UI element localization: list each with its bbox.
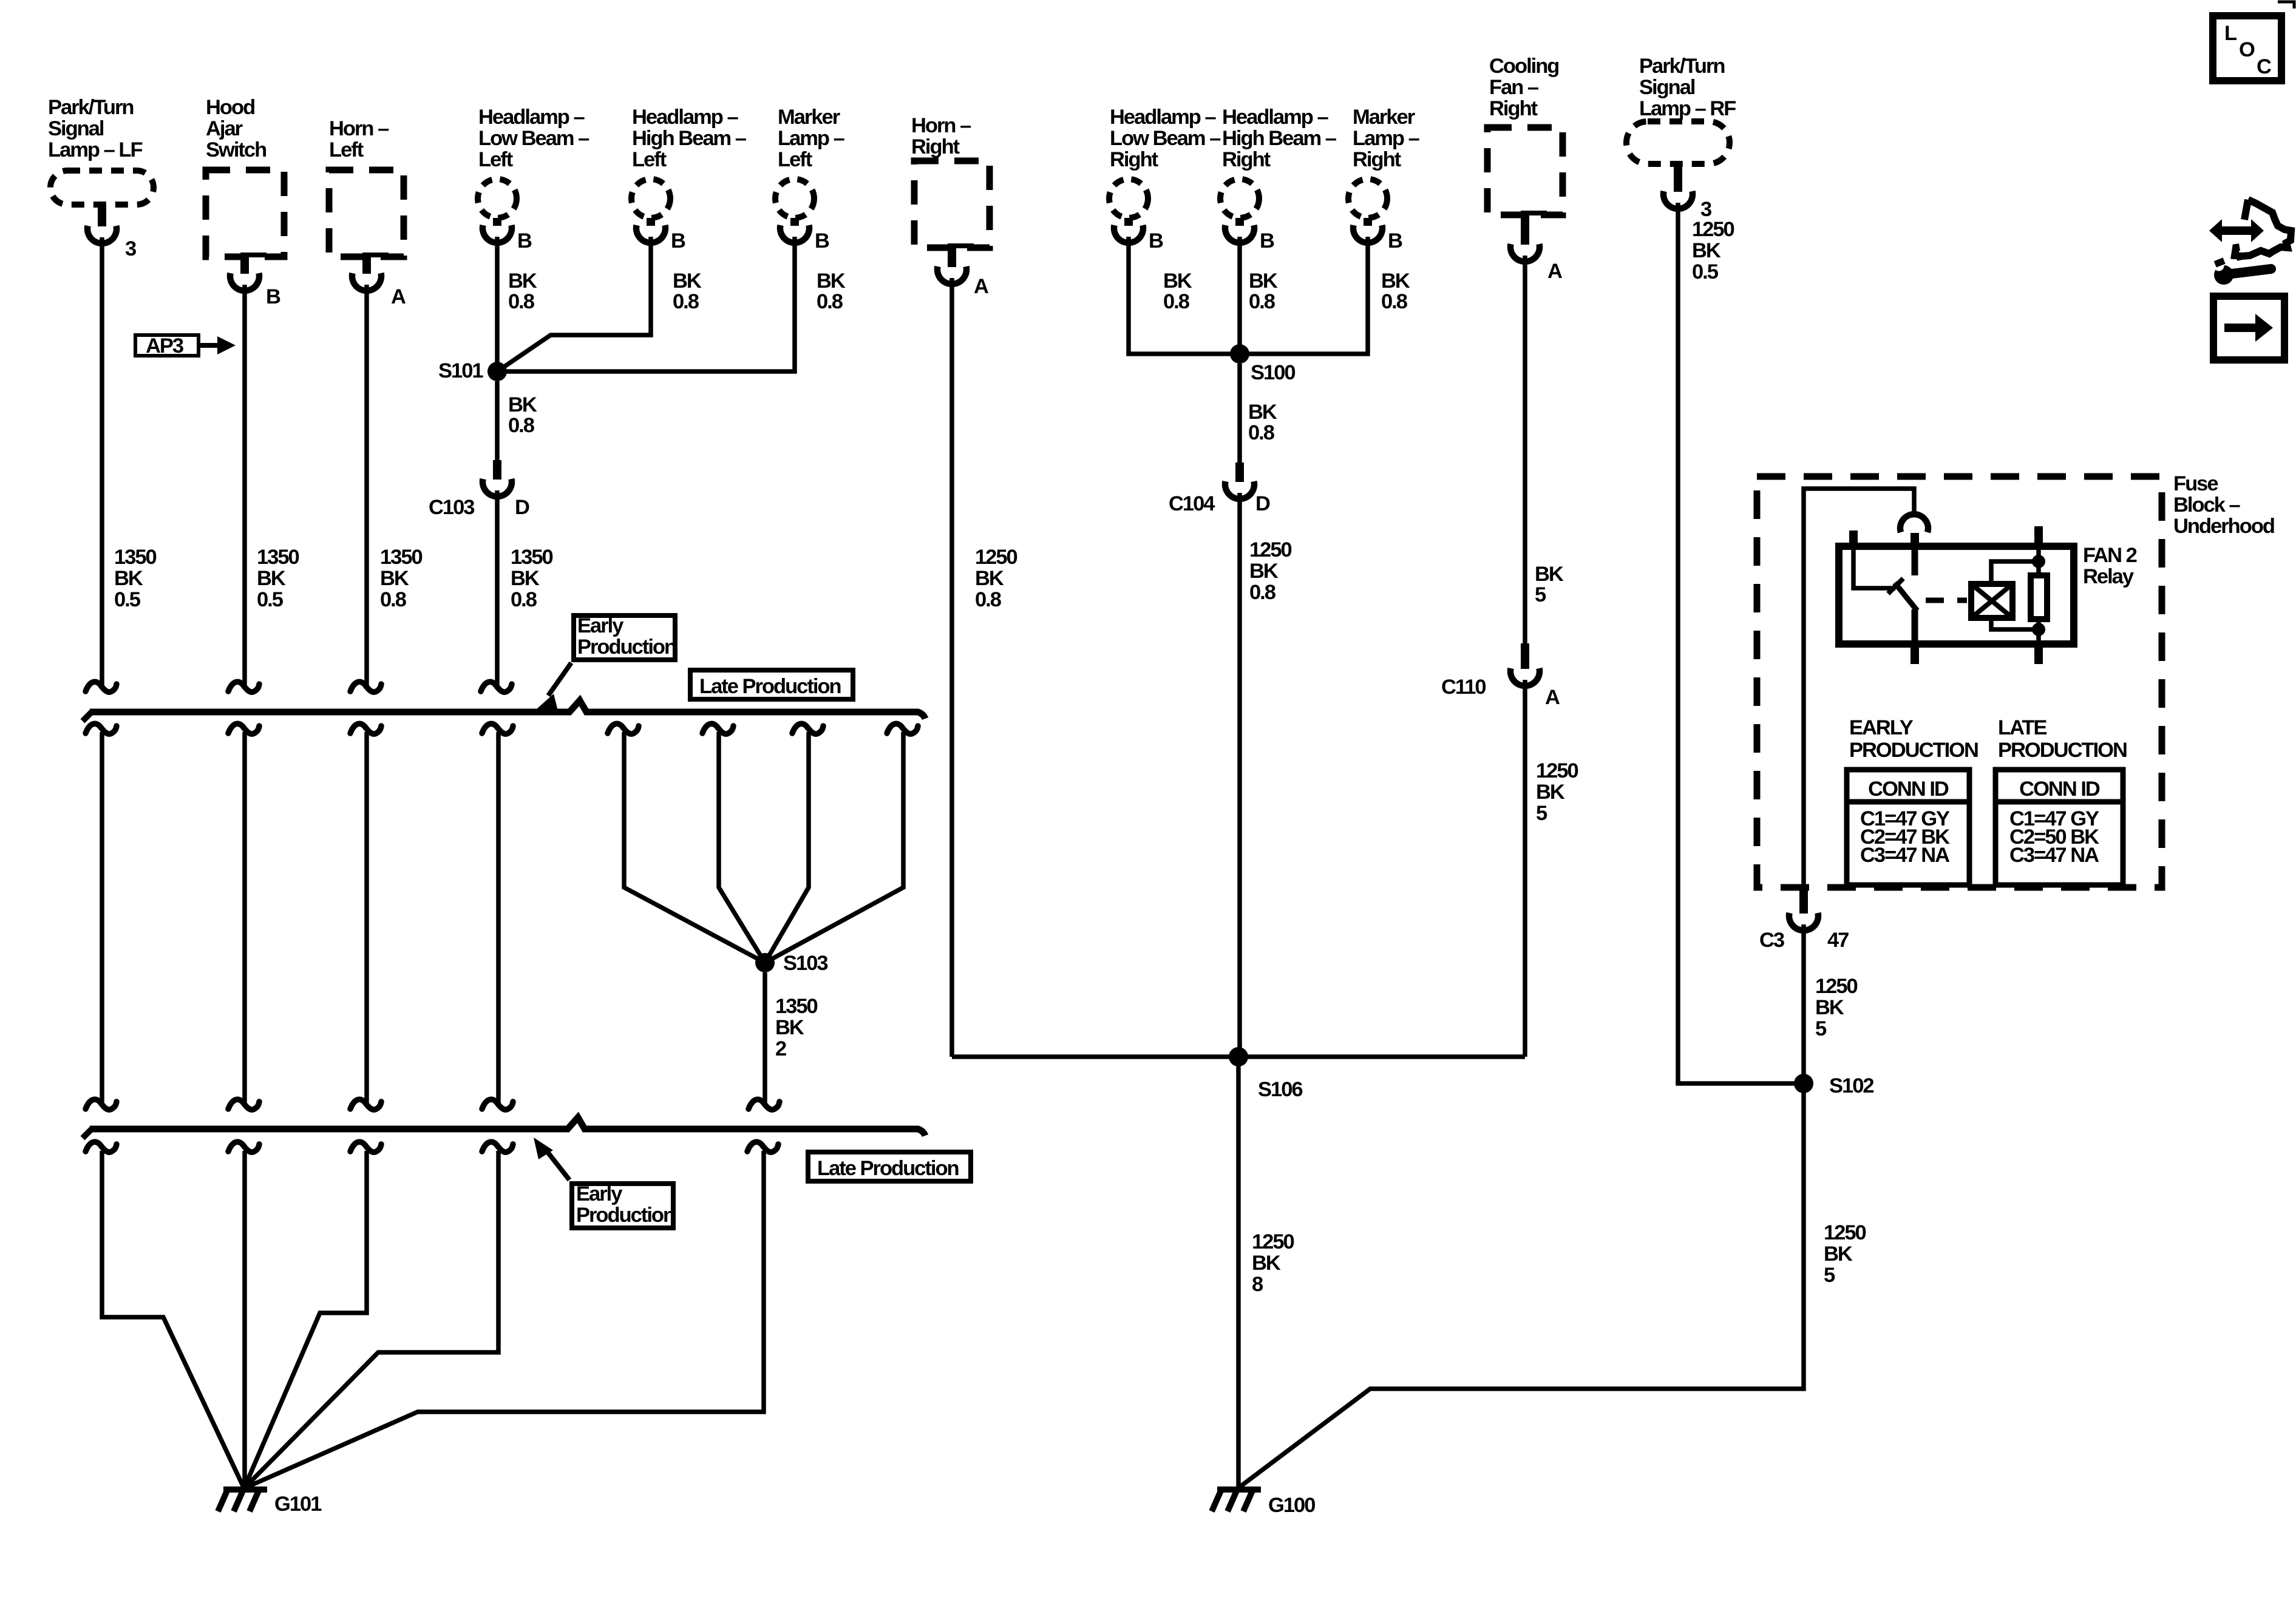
svg-text:BK: BK bbox=[508, 269, 537, 293]
svg-text:0.8: 0.8 bbox=[1163, 290, 1190, 313]
svg-text:Early: Early bbox=[577, 614, 623, 637]
wire late-production branch 1 from bus 1 to splice S103 bbox=[608, 724, 765, 963]
svg-text:Fuse: Fuse bbox=[2173, 472, 2218, 495]
svg-text:Block –: Block – bbox=[2173, 493, 2241, 517]
svg-text:LATE: LATE bbox=[1998, 716, 2047, 739]
relay FAN 2 coil actuation dashed link bbox=[1926, 598, 1967, 603]
svg-text:C3: C3 bbox=[1759, 929, 1784, 952]
connector pin B of Headlamp Low Beam Right bbox=[1114, 218, 1163, 253]
svg-text:Headlamp –: Headlamp – bbox=[1110, 106, 1216, 129]
svg-text:S101: S101 bbox=[438, 359, 483, 382]
connector C3 pin 47 bbox=[1759, 887, 1849, 952]
svg-text:BK: BK bbox=[1248, 401, 1277, 424]
svg-text:1350: 1350 bbox=[511, 546, 553, 569]
svg-text:B: B bbox=[266, 285, 280, 308]
component Hood Ajar Switch (dashed box) bbox=[206, 96, 284, 257]
svg-text:BK: BK bbox=[508, 393, 537, 416]
svg-text:B: B bbox=[1149, 229, 1163, 253]
svg-text:BK: BK bbox=[1692, 239, 1721, 262]
svg-text:Horn –: Horn – bbox=[911, 114, 971, 137]
wire inside fuse block from relay to connector C3 bbox=[1804, 489, 1914, 887]
svg-text:47: 47 bbox=[1827, 929, 1849, 952]
wire early-production ground run 4 from bus 1 to bus 2 bbox=[482, 724, 513, 1110]
wire 1250 BK 0.5 from Park/Turn RF pin 3 down and right to splice S102 bbox=[1678, 203, 1804, 1083]
svg-text:5: 5 bbox=[1824, 1264, 1835, 1287]
svg-text:G100: G100 bbox=[1268, 1494, 1315, 1517]
wire 1250 BK 5 from C110 down to splice S106 horizontal bbox=[1525, 680, 1578, 1057]
wire BK 0.8 from Marker Lamp Left pin B to splice S101 bbox=[497, 237, 846, 371]
svg-text:C3=47 NA: C3=47 NA bbox=[1860, 844, 1949, 867]
svg-text:1250: 1250 bbox=[1692, 218, 1734, 241]
svg-text:S103: S103 bbox=[783, 952, 827, 975]
svg-text:PRODUCTION: PRODUCTION bbox=[1849, 739, 1978, 762]
svg-text:Low Beam –: Low Beam – bbox=[478, 127, 589, 150]
svg-text:BK: BK bbox=[1536, 781, 1565, 804]
component Marker Lamp - Left (dashed circle) bbox=[775, 106, 845, 218]
svg-text:1350: 1350 bbox=[114, 546, 157, 569]
svg-text:0.8: 0.8 bbox=[511, 588, 537, 611]
component Marker Lamp - Right (dashed circle) bbox=[1348, 106, 1420, 218]
connector pin B of Marker Lamp Right bbox=[1353, 218, 1402, 253]
wire late-production branch 3 from bus 1 to splice S103 bbox=[765, 724, 823, 963]
svg-text:0.5: 0.5 bbox=[1692, 260, 1719, 283]
connector C110 pin A bbox=[1441, 643, 1560, 709]
svg-text:Late Production: Late Production bbox=[699, 675, 841, 698]
svg-text:BK: BK bbox=[1163, 269, 1192, 293]
svg-text:Park/Turn: Park/Turn bbox=[1639, 55, 1724, 78]
svg-text:Right: Right bbox=[1353, 148, 1402, 171]
svg-text:Right: Right bbox=[1222, 148, 1271, 171]
connector C103 pin D bbox=[429, 460, 529, 519]
legend LOC box bbox=[2213, 16, 2281, 81]
svg-text:1250: 1250 bbox=[975, 546, 1017, 569]
svg-text:0.5: 0.5 bbox=[257, 588, 284, 611]
svg-text:5: 5 bbox=[1536, 802, 1547, 825]
svg-text:A: A bbox=[391, 285, 406, 308]
svg-text:3: 3 bbox=[125, 237, 136, 260]
svg-text:Switch: Switch bbox=[206, 138, 266, 161]
svg-text:0.8: 0.8 bbox=[380, 588, 407, 611]
wire harness splice bus 2 (early/late production boundary) bbox=[83, 1117, 925, 1138]
label Late Production (bus 2) bbox=[808, 1152, 971, 1181]
svg-text:Right: Right bbox=[1110, 148, 1159, 171]
svg-text:Production: Production bbox=[576, 1204, 674, 1227]
svg-text:0.8: 0.8 bbox=[817, 290, 843, 313]
fuse block - underhood dashed enclosure bbox=[1757, 472, 2274, 887]
svg-text:A: A bbox=[974, 275, 988, 298]
wire late-production branch 4 from bus 1 to splice S103 bbox=[765, 724, 918, 963]
table CONN ID late production bbox=[1995, 770, 2123, 885]
svg-text:CONN ID: CONN ID bbox=[1868, 778, 1949, 801]
wire 1250 BK 0.8 from C104 down to splice S106 bbox=[1240, 493, 1292, 1057]
svg-text:B: B bbox=[1388, 229, 1402, 253]
svg-text:1350: 1350 bbox=[257, 546, 299, 569]
wire BK 5 from Cooling Fan Right pin A down to connector C110 bbox=[1525, 256, 1564, 645]
wire late-production branch 2 from bus 1 to splice S103 bbox=[702, 724, 765, 963]
component Park/Turn Signal Lamp - LF (dashed stadium) bbox=[48, 96, 154, 205]
wire 1350 BK 2 from S103 down to bus 2 bbox=[749, 972, 818, 1110]
svg-text:BK: BK bbox=[817, 269, 846, 293]
wire BK 0.8 from Headlamp Low Beam Left pin B to splice S101 bbox=[497, 237, 537, 371]
svg-text:1250: 1250 bbox=[1536, 759, 1578, 782]
svg-text:C110: C110 bbox=[1441, 676, 1486, 699]
svg-text:BK: BK bbox=[1381, 269, 1410, 293]
relay FAN 2 body bbox=[1839, 544, 2137, 644]
connector pin 3 of Park/Turn Signal Lamp LF bbox=[87, 205, 136, 260]
wire early-production ground run 3 from bus 1 to bus 2 bbox=[350, 724, 381, 1110]
wire early-production ground run 2 from bus 1 to bus 2 bbox=[228, 724, 259, 1110]
svg-text:BK: BK bbox=[1249, 560, 1279, 583]
wire BK 0.8 from S100 down to connector C104 bbox=[1240, 364, 1277, 464]
wire ground run 2 from bus 2 to ground G101 bbox=[228, 1142, 259, 1488]
svg-text:Park/Turn: Park/Turn bbox=[48, 96, 133, 119]
svg-text:1250: 1250 bbox=[1815, 975, 1858, 998]
svg-text:BK: BK bbox=[1249, 269, 1278, 293]
svg-text:A: A bbox=[1545, 686, 1560, 709]
svg-text:B: B bbox=[1260, 229, 1274, 253]
svg-text:Headlamp –: Headlamp – bbox=[632, 106, 738, 129]
svg-text:0.5: 0.5 bbox=[114, 588, 141, 611]
wire splice S106 horizontal tie bbox=[952, 1054, 1525, 1059]
svg-text:B: B bbox=[517, 229, 532, 253]
svg-text:C104: C104 bbox=[1169, 492, 1215, 515]
svg-text:Lamp – RF: Lamp – RF bbox=[1639, 97, 1736, 120]
wire BK 0.8 from Headlamp High Beam Left pin B to splice S101 bbox=[497, 237, 702, 371]
svg-text:Hood: Hood bbox=[206, 96, 254, 119]
svg-text:BK: BK bbox=[511, 567, 540, 590]
svg-text:Lamp –: Lamp – bbox=[778, 127, 845, 150]
connector cavity above FAN 2 relay pin bbox=[1900, 514, 1928, 532]
svg-text:G101: G101 bbox=[274, 1493, 322, 1516]
component Headlamp - High Beam - Left (dashed circle) bbox=[631, 106, 747, 218]
splice S102 junction dot bbox=[1794, 1074, 1873, 1097]
svg-text:Left: Left bbox=[478, 148, 514, 171]
ground G100 bbox=[1212, 1490, 1315, 1517]
svg-text:Left: Left bbox=[632, 148, 667, 171]
svg-text:0.8: 0.8 bbox=[1249, 290, 1275, 313]
svg-text:Right: Right bbox=[1489, 97, 1538, 120]
wire ground run 4 from bus 2 to ground G101 bbox=[244, 1142, 513, 1488]
svg-text:Left: Left bbox=[329, 138, 364, 161]
label AP3 reference box with arrow bbox=[135, 334, 236, 358]
svg-text:1350: 1350 bbox=[380, 546, 423, 569]
svg-text:Ajar: Ajar bbox=[206, 117, 243, 140]
svg-text:1350: 1350 bbox=[775, 995, 818, 1018]
svg-text:Underhood: Underhood bbox=[2173, 515, 2274, 538]
wire BK 0.8 from Headlamp Low Beam Right pin B to splice S100 bbox=[1129, 237, 1240, 354]
svg-text:O: O bbox=[2239, 38, 2255, 61]
wire 1250 BK 0.8 from Horn Right pin A down to splice S106 horizontal bbox=[952, 278, 1017, 1057]
svg-text:Signal: Signal bbox=[48, 117, 104, 140]
svg-text:5: 5 bbox=[1535, 583, 1546, 606]
svg-text:Headlamp –: Headlamp – bbox=[478, 106, 585, 129]
svg-text:S102: S102 bbox=[1829, 1074, 1873, 1097]
svg-text:FAN 2: FAN 2 bbox=[2083, 544, 2137, 567]
relay FAN 2 coil (box with X) bbox=[1971, 584, 2012, 618]
wire ground run 1 from bus 2 to ground G101 bbox=[86, 1142, 244, 1488]
svg-text:AP3: AP3 bbox=[146, 334, 183, 358]
svg-text:BK: BK bbox=[1815, 996, 1844, 1019]
component Horn - Right (dashed box) bbox=[911, 114, 990, 248]
svg-text:Horn –: Horn – bbox=[329, 117, 389, 140]
svg-text:BK: BK bbox=[1824, 1242, 1853, 1266]
svg-text:C: C bbox=[2257, 55, 2271, 78]
connector pin B of Headlamp High Beam Left bbox=[636, 218, 685, 253]
component Horn - Left (dashed box) bbox=[329, 117, 404, 257]
svg-text:Marker: Marker bbox=[1353, 106, 1415, 129]
wire 1350 BK 0.5 from Park/Turn LF pin 3 to early-production splice bus bbox=[86, 237, 157, 692]
svg-text:D: D bbox=[515, 496, 529, 519]
svg-text:S106: S106 bbox=[1258, 1078, 1302, 1101]
svg-text:0.8: 0.8 bbox=[1381, 290, 1408, 313]
svg-text:EARLY: EARLY bbox=[1849, 716, 1914, 739]
wire harness splice bus 1 (early/late production boundary) bbox=[83, 700, 925, 721]
connector pin 3 of Park/Turn Signal Lamp RF bbox=[1663, 164, 1711, 221]
svg-text:0.8: 0.8 bbox=[508, 290, 535, 313]
svg-text:Lamp –: Lamp – bbox=[1353, 127, 1420, 150]
svg-text:L: L bbox=[2224, 22, 2237, 45]
svg-text:S100: S100 bbox=[1251, 361, 1295, 384]
relay FAN 2 resistor bbox=[2031, 546, 2047, 644]
icon double arrow with part outline and wrench bbox=[2209, 200, 2291, 285]
wire ground run 5 (late production) from bus 2 to ground G101 bbox=[244, 1142, 778, 1488]
icon forward arrow box bbox=[2213, 296, 2284, 360]
svg-text:Production: Production bbox=[577, 636, 676, 659]
svg-text:PRODUCTION: PRODUCTION bbox=[1998, 739, 2127, 762]
svg-text:BK: BK bbox=[975, 567, 1004, 590]
page corner tick mark bbox=[2278, 2, 2294, 8]
component Headlamp - Low Beam - Right (dashed circle) bbox=[1109, 106, 1221, 218]
wire 1350 BK 0.5 from Hood Ajar Switch pin B to early-production splice bus bbox=[228, 285, 299, 692]
svg-text:High Beam –: High Beam – bbox=[632, 127, 747, 150]
table CONN ID early production bbox=[1847, 770, 1969, 885]
svg-text:Signal: Signal bbox=[1639, 76, 1695, 99]
svg-text:Lamp – LF: Lamp – LF bbox=[48, 138, 142, 161]
connector pin A of Cooling Fan Right bbox=[1510, 211, 1562, 283]
relay FAN 2 pin stubs bbox=[1853, 526, 2039, 664]
svg-text:0.8: 0.8 bbox=[1249, 581, 1276, 604]
connector pin B of Headlamp High Beam Right bbox=[1225, 218, 1274, 253]
wire BK 0.8 from Marker Lamp Right pin B to splice S100 bbox=[1240, 237, 1410, 354]
component Headlamp - High Beam - Right (dashed circle) bbox=[1220, 106, 1337, 218]
label Late Production (bus 1) bbox=[690, 670, 853, 699]
svg-text:A: A bbox=[1547, 260, 1562, 283]
splice S101 junction dot bbox=[438, 359, 507, 382]
label EARLY PRODUCTION (fuse block) bbox=[1849, 716, 1978, 762]
svg-text:0.8: 0.8 bbox=[1248, 421, 1275, 444]
svg-text:1250: 1250 bbox=[1824, 1221, 1866, 1244]
svg-text:Late Production: Late Production bbox=[817, 1157, 959, 1180]
svg-text:B: B bbox=[671, 229, 685, 253]
svg-text:0.8: 0.8 bbox=[975, 588, 1002, 611]
svg-text:0.8: 0.8 bbox=[508, 414, 535, 437]
connector pin B of Marker Lamp Left bbox=[780, 218, 829, 253]
svg-text:BK: BK bbox=[1252, 1252, 1281, 1275]
svg-text:1250: 1250 bbox=[1249, 538, 1292, 561]
svg-text:0.8: 0.8 bbox=[673, 290, 699, 313]
svg-text:BK: BK bbox=[673, 269, 702, 293]
svg-text:Cooling: Cooling bbox=[1489, 55, 1558, 78]
svg-text:Fan –: Fan – bbox=[1489, 76, 1539, 99]
connector pin B of Hood Ajar Switch bbox=[230, 253, 280, 308]
label Early Production (bus 1) with arrow bbox=[537, 614, 676, 713]
wire early-production ground run 1 from bus 1 to bus 2 bbox=[86, 724, 117, 1110]
ground G101 bbox=[218, 1490, 322, 1516]
svg-text:BK: BK bbox=[1535, 563, 1564, 586]
svg-text:Relay: Relay bbox=[2083, 565, 2134, 588]
connector pin B of Headlamp Low Beam Left bbox=[483, 218, 532, 253]
svg-text:High Beam –: High Beam – bbox=[1222, 127, 1337, 150]
label LATE PRODUCTION (fuse block) bbox=[1998, 716, 2127, 762]
wire 1250 BK 5 from S102 to ground G100 bbox=[1238, 1083, 1866, 1488]
svg-text:Low Beam –: Low Beam – bbox=[1110, 127, 1221, 150]
svg-text:B: B bbox=[815, 229, 829, 253]
svg-text:Right: Right bbox=[911, 135, 960, 158]
component Cooling Fan - Right (dashed box) bbox=[1487, 55, 1563, 215]
svg-text:CONN ID: CONN ID bbox=[2019, 778, 2100, 801]
component Headlamp - Low Beam - Left (dashed circle) bbox=[478, 106, 589, 218]
component Park/Turn Signal Lamp - RF (dashed stadium) bbox=[1626, 55, 1736, 164]
connector C104 pin D bbox=[1169, 463, 1270, 515]
splice S103 junction dot bbox=[755, 952, 827, 975]
relay FAN 2 switch bbox=[1853, 546, 1917, 644]
svg-text:BK: BK bbox=[114, 567, 143, 590]
svg-text:5: 5 bbox=[1815, 1017, 1827, 1040]
wire 1350 BK 0.8 from Horn Left pin A to early-production splice bus bbox=[350, 285, 423, 692]
svg-text:BK: BK bbox=[775, 1016, 804, 1039]
wire 1250 BK 8 from S106 down to ground G100 bbox=[1238, 1057, 1294, 1488]
svg-text:D: D bbox=[1255, 492, 1270, 515]
wire ground run 3 from bus 2 to ground G101 bbox=[244, 1142, 381, 1488]
svg-text:2: 2 bbox=[775, 1037, 786, 1060]
connector pin A of Horn Left bbox=[352, 253, 406, 308]
relay FAN 2 coil leads bbox=[1991, 561, 2039, 629]
svg-text:1250: 1250 bbox=[1252, 1230, 1294, 1253]
relay FAN 2 internal junction dots bbox=[2032, 555, 2045, 636]
wire 1250 BK 5 from C3 down to splice S102 bbox=[1804, 924, 1858, 1083]
svg-text:C103: C103 bbox=[429, 496, 474, 519]
svg-text:Left: Left bbox=[778, 148, 813, 171]
wire BK 0.8 from Headlamp High Beam Right pin B to splice S100 bbox=[1240, 237, 1278, 354]
wire 1350 BK 0.8 from C103 to early-production splice bus bbox=[481, 490, 553, 692]
splice S106 junction dot bbox=[1229, 1047, 1302, 1101]
wire BK 0.8 from S101 down to connector C103 bbox=[497, 381, 537, 461]
svg-text:BK: BK bbox=[380, 567, 409, 590]
svg-text:BK: BK bbox=[257, 567, 286, 590]
svg-text:8: 8 bbox=[1252, 1273, 1263, 1296]
connector pin A of Horn Right bbox=[937, 243, 988, 298]
svg-text:Headlamp –: Headlamp – bbox=[1222, 106, 1328, 129]
splice S100 junction dot bbox=[1230, 344, 1295, 384]
svg-text:Early: Early bbox=[576, 1182, 622, 1205]
label Early Production (bus 2) with arrow bbox=[534, 1137, 674, 1228]
svg-text:Marker: Marker bbox=[778, 106, 840, 129]
svg-text:C3=47 NA: C3=47 NA bbox=[2009, 844, 2099, 867]
